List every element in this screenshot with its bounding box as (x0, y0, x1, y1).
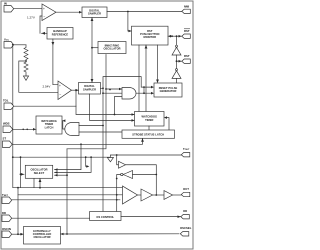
wire TOL up to watchdog timer (76, 106, 135, 114)
wire gate1 input stub a (106, 88, 122, 90)
svg-text:TIMER: TIMER (145, 118, 153, 122)
arrow into gate1 top input (119, 88, 122, 91)
svg-text:OSCILLATOR: OSCILLATOR (33, 235, 50, 239)
arrow up into sampler1 (91, 18, 94, 22)
arrow into watchdog timer right (164, 116, 167, 119)
big buffer (123, 186, 138, 204)
svg-text:SAMPLER: SAMPLER (88, 12, 101, 16)
arrow down on bandgap line (52, 42, 55, 46)
pin RSTB (182, 34, 191, 38)
wire clock to samplers (91, 18, 93, 83)
pin TOUT (181, 153, 190, 157)
svg-text:OSCIN: OSCIN (2, 227, 11, 231)
junction at 20.5,157.2 (20, 156, 22, 158)
inverter I2 (172, 69, 181, 79)
wire sampler2 bottom to watchdog timer (90, 94, 135, 120)
wire osc select feed vertical (20, 157, 22, 188)
wire TSET (12, 199, 120, 201)
wire gate1 input 3 riser (115, 97, 123, 115)
node minus input wire (40, 16, 42, 33)
box U10 WATCHDOG TIMER (135, 112, 165, 127)
inverter feedback left (121, 171, 133, 179)
svg-text:STROBE STATUS LATCH: STROBE STATUS LATCH (132, 133, 164, 137)
junction at 81,144.3 (80, 143, 82, 145)
arrow into watchdog timer b (132, 119, 135, 122)
op-amp U4 comparator 2.54V (58, 81, 72, 100)
pin OSCIN (2, 231, 12, 238)
wire VCC rail bottom run to buffer (13, 157, 123, 188)
junction at 67,234 (66, 233, 68, 235)
wire RSTB net (168, 35, 182, 37)
junction at 103,93.2 (102, 92, 104, 94)
wire I2 to generator (176, 78, 178, 82)
junction at 116.7,178.5 (116, 178, 118, 180)
box U6 8MHZ RING OSCILLATOR (98, 42, 126, 54)
svg-text:RST: RST (184, 54, 190, 58)
wire DD (12, 217, 90, 219)
junction at 116.7,155 (116, 154, 118, 156)
wire ST strobe (12, 138, 142, 144)
arrow into sampler1 left (79, 11, 82, 14)
wire TOL (14, 105, 76, 107)
wire gate1 input stub b (103, 92, 122, 94)
junction at 20.5,174.3 (20, 173, 22, 175)
wire to OUT pin (173, 194, 182, 196)
svg-text:NMI: NMI (184, 5, 189, 9)
box U5 DIGITAL SAMPLER lower (79, 83, 101, 95)
arrow up into strobe latch (141, 138, 144, 142)
junction at 114.5,114.5 (114, 114, 116, 116)
wire OSCIN to ext osc (12, 233, 24, 235)
pin DD (2, 215, 12, 222)
arrow into osc select in3 (55, 174, 58, 177)
wire VCC rail down left side (12, 45, 14, 157)
svg-text:DD: DD (2, 211, 6, 215)
box U13 OS CONTROL (90, 212, 121, 221)
junction at 144,87.1 (143, 86, 145, 88)
svg-text:+: + (59, 84, 61, 88)
wire buffer out loop to OUT net (126, 165, 157, 195)
svg-text:ST: ST (3, 137, 7, 141)
wire osc select in1 (55, 144, 82, 169)
wire cluster vertical (117, 155, 119, 165)
arrow V5 stub (86, 165, 89, 168)
junction at 156.3,174.5 (155, 174, 157, 176)
wire sampler to NMI pin (107, 11, 183, 13)
junction at 116.7,194.8 (116, 194, 118, 196)
pin TOUT wire (117, 154, 182, 156)
junction at 27.2,129.3 (26, 129, 28, 131)
wire comparator2 out to sampler2 (72, 89, 79, 91)
wire monitor down to reset gen (157, 45, 159, 82)
pin WDS (3, 126, 13, 133)
wire timer to generator (165, 118, 169, 130)
junction at 144,93.2 (143, 92, 145, 94)
wire osc select in3 stub (55, 174, 68, 176)
junction at 103,125.5 (102, 125, 104, 127)
arrow down into reset gen top (156, 80, 159, 84)
wire timer to latch link (148, 126, 150, 130)
box texts (30, 9, 177, 240)
wire I1 to RST node (176, 55, 178, 69)
junction at 172,36.2 (171, 35, 173, 37)
wire into oscillator select left input (21, 173, 25, 175)
wire jog down to OSCIN (17, 188, 19, 235)
arrow into sampler2 left (76, 89, 79, 92)
junction at 18,187.7 (17, 187, 19, 189)
comparator labels (27, 7, 61, 97)
junction at 110,89.5 (109, 89, 111, 91)
svg-text:2.54V: 2.54V (43, 85, 51, 89)
box U7 RST PUSH BUTTON MONITOR (132, 26, 169, 45)
arrow into latch from gate2 (62, 119, 65, 122)
wire gate1 output to reset gen (136, 92, 152, 94)
pin OUT (181, 192, 190, 196)
arrow into ext osc right (61, 233, 64, 236)
svg-text:OD: OD (183, 209, 187, 213)
overline on RSTB label (184, 28, 190, 30)
arrow into watchdog timer a (132, 113, 135, 116)
resistor R1 (24, 45, 28, 61)
pin ST (3, 141, 13, 148)
svg-text:SELECT: SELECT (34, 171, 45, 175)
junction at 156.3,195 (155, 194, 157, 196)
small buffer (164, 191, 173, 200)
wire V5 (85, 157, 88, 166)
arrow into reset gen b (151, 92, 154, 95)
op-amp U1 comparator 1.27V (42, 4, 56, 21)
wire big buffer input (18, 194, 123, 196)
junction at 127.9,11.5 (127, 11, 129, 13)
wire ring osc bottom bus to oscillator select (67, 55, 106, 149)
svg-text:−: − (59, 92, 61, 96)
svg-text:TOL: TOL (3, 99, 9, 103)
junction at 21,234.2 (20, 233, 22, 235)
arrow into osc select in1 (55, 168, 58, 171)
svg-text:1.27V: 1.27V (27, 15, 35, 19)
pin OSCSEL (180, 232, 189, 236)
svg-text:WDS: WDS (3, 122, 10, 126)
wire RST tap (177, 60, 182, 62)
arrow into watchdog latch left (33, 128, 36, 131)
wire IN to comparator (14, 8, 42, 10)
arrow into monitor right (168, 35, 171, 38)
junction at 85.7,157.2 (85, 156, 87, 158)
svg-text:OUT: OUT (183, 187, 189, 191)
wire WDS (13, 128, 36, 130)
wire bandgap down to comparator 2 (53, 39, 58, 85)
svg-text:SAMPLER: SAMPLER (83, 87, 96, 91)
box U3 BANDGAP REFERENCE (47, 28, 73, 40)
junction at 176.5,36.2 (176, 35, 178, 37)
arrow down into sampler2 (91, 79, 94, 83)
wire ext osc right to OSCSEL pin (61, 233, 180, 235)
wire gate2 input b (79, 125, 103, 127)
gate G2 reverse (65, 123, 79, 136)
junction at 12.8,157.2 (12, 156, 14, 158)
svg-text:RST: RST (184, 29, 190, 33)
wire monitor to watchdog timer a (138, 45, 140, 112)
wire bandgap to comparator ref (42, 32, 48, 34)
wire med to small (153, 194, 165, 196)
svg-text:REFERENCE: REFERENCE (52, 32, 69, 36)
svg-text:MONITOR: MONITOR (144, 35, 157, 39)
node comparator2 output branch (75, 90, 77, 106)
AND gate G1 (122, 88, 136, 100)
svg-text:OSCILLATOR: OSCILLATOR (103, 47, 120, 51)
node link between gen inputs (143, 87, 145, 93)
box U8 RESET PULSE GENERATOR (154, 83, 182, 97)
arrow into osc select left (21, 173, 24, 176)
wire osc select in2 (55, 157, 92, 172)
pin TSET (2, 197, 12, 204)
ground clamp nabla (107, 155, 116, 162)
box U2 DIGITAL SAMPLER top (82, 7, 107, 18)
wire osc select in3 (66, 149, 68, 234)
pin RST (182, 59, 191, 63)
wire gate2 to latch (62, 121, 64, 129)
junction at 91.1,157.2 (90, 156, 92, 158)
svg-text:OS CONTROL: OS CONTROL (96, 215, 114, 219)
svg-text:+: + (43, 7, 45, 11)
junction at 67,175.2 (66, 174, 68, 176)
arrow into reset gen a (151, 86, 154, 89)
wire osc select bottom b (33, 179, 35, 188)
junction at 40,187.7 (39, 187, 41, 189)
arrow into RSTB pin (179, 35, 182, 38)
inverter I1 (172, 45, 181, 55)
arrow up into monitor bottom (145, 45, 148, 49)
wire gate2 input a (79, 131, 122, 133)
box U9 WATCHDOG TIMER LATCH (36, 116, 62, 134)
junction at 23.2,129.3 (22, 129, 24, 131)
arrow into monitor left (129, 30, 132, 33)
arrow up into osc select bottom (39, 179, 42, 183)
wire OS control to OD pin (121, 216, 181, 218)
pin VCC (4, 42, 14, 49)
arrow into OD pin (178, 215, 181, 218)
arrow into osc select in2 (55, 171, 58, 174)
svg-text:LATCH: LATCH (45, 125, 54, 129)
junction at 18,234.2 (17, 233, 19, 235)
junction at 103,88.3 (102, 87, 104, 89)
wire bus down mid (102, 88, 104, 211)
buffer B-right small (119, 161, 126, 168)
junction at 106,89 (105, 88, 107, 90)
resistor R2 (24, 61, 28, 76)
svg-text:IN: IN (4, 1, 7, 5)
pin NMI top right (182, 9, 191, 13)
border frame (1, 1, 193, 249)
wire buffer link (138, 194, 142, 196)
svg-text:GENERATOR: GENERATOR (160, 89, 177, 93)
arrow into RST pin (179, 60, 182, 63)
svg-text:OSCSEL: OSCSEL (180, 226, 192, 230)
wire feedback input (133, 174, 157, 176)
medium buffer (141, 189, 153, 201)
junction at 92,47.7 (91, 47, 93, 49)
arrow into bandgap wire left (42, 32, 46, 35)
junction at 176.5,61.2 (176, 60, 178, 62)
arrowheads (21, 11, 182, 236)
junction at 116.7,199.8 (116, 199, 118, 201)
wire branch to push button monitor (128, 12, 131, 32)
wire VCC (14, 44, 26, 46)
box U11 STROBE STATUS LATCH (122, 130, 175, 138)
wire osc select bottom a (39, 179, 41, 188)
arrow into ext osc left (21, 233, 24, 236)
wire monitor to watchdog timer b (145, 45, 147, 112)
wire H3 (13, 156, 110, 158)
junction at 12.8,44.8 (12, 44, 14, 46)
wire divider tap to comparator 2 (19, 61, 58, 92)
pin IN (4, 6, 14, 13)
pin TOL (4, 103, 14, 110)
wire sampler2 output bus up to reset gen (101, 77, 152, 89)
wire I1 top to RSTB (176, 36, 178, 45)
ground (23, 76, 28, 80)
wire comparator output to sampler (56, 11, 82, 13)
box U14 EXTERNALLY CONTROLLED OSCILLATOR (24, 227, 61, 245)
wire feedback output down (117, 175, 121, 212)
box U12 OSCILLATOR SELECT (25, 165, 52, 178)
junction at 76,90.2 (75, 89, 77, 91)
junction at 26,61 (25, 60, 27, 62)
svg-text:−: − (43, 15, 45, 19)
pin OD (181, 215, 190, 219)
